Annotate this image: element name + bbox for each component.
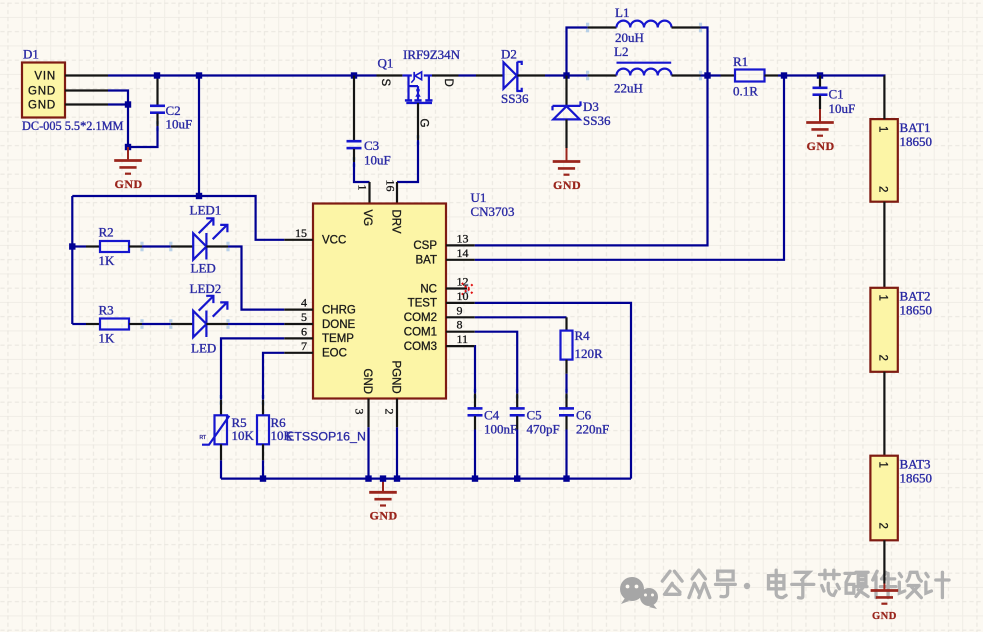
- pin U1.1: [368, 182, 370, 204]
- svg-text:9: 9: [457, 303, 463, 317]
- svg-text:GND: GND: [115, 177, 143, 191]
- svg-text:U1: U1: [471, 190, 487, 205]
- svg-text:R3: R3: [99, 303, 114, 318]
- junction C5 rail: [514, 475, 520, 481]
- wire LED top rail: [72, 196, 284, 240]
- junction R2: [69, 243, 75, 249]
- wire LED supply vertical: [198, 76, 200, 197]
- pin U1.6 TEMP: [284, 337, 313, 339]
- wire D1 gnd to vertical: [108, 91, 158, 148]
- pin Q1 gate: [417, 103, 419, 140]
- svg-text:SS36: SS36: [501, 91, 529, 106]
- IC U1 CN3703 body: [313, 204, 446, 399]
- junction C4 rail: [472, 475, 478, 481]
- pin U1.13 CSP: [446, 244, 475, 246]
- svg-text:2: 2: [877, 523, 889, 529]
- junction R6 rail: [260, 475, 266, 481]
- svg-text:470pF: 470pF: [527, 422, 560, 437]
- inductor L2: [617, 63, 721, 76]
- svg-text:8: 8: [457, 318, 463, 332]
- svg-text:120R: 120R: [575, 346, 604, 361]
- capacitor C1: [813, 76, 828, 110]
- junction C1: [817, 72, 823, 78]
- svg-text:220nF: 220nF: [576, 422, 609, 437]
- svg-text:R1: R1: [733, 54, 748, 69]
- ground GND D3: [553, 148, 581, 175]
- svg-text:1K: 1K: [99, 331, 116, 346]
- pin D1.1 VIN: [65, 74, 108, 76]
- svg-text:10K: 10K: [232, 428, 255, 443]
- svg-text:3: 3: [353, 409, 367, 415]
- pin U1.15 VCC: [284, 239, 313, 241]
- junction pin2 rail: [394, 475, 400, 481]
- svg-text:GND: GND: [370, 509, 398, 523]
- wire R2 left: [72, 245, 86, 247]
- pin U1.3 GND: [367, 399, 369, 428]
- no-connect X on pin 12: [462, 283, 474, 295]
- svg-text:20uH: 20uH: [615, 30, 644, 45]
- svg-text:7: 7: [301, 339, 307, 353]
- wire LED2 to DONE: [228, 323, 284, 325]
- svg-text:13: 13: [457, 231, 469, 245]
- svg-text:DRV: DRV: [390, 210, 402, 234]
- svg-text:Q1: Q1: [378, 56, 394, 71]
- pin U1.12 NC: [446, 287, 467, 289]
- pin U1.8 COM1: [446, 331, 475, 333]
- wire CSP sense: [475, 76, 708, 246]
- svg-text:18650: 18650: [900, 471, 933, 486]
- wire gate to pin16: [397, 140, 418, 182]
- pin Q1 drain: [432, 74, 459, 76]
- connector D1: [22, 63, 65, 118]
- wire COM2 to R4: [475, 316, 567, 318]
- svg-text:GND: GND: [28, 100, 56, 112]
- wire BAT1 to BAT2: [883, 202, 885, 288]
- diode D3 SS36: [553, 76, 581, 149]
- svg-text:CHRG: CHRG: [322, 304, 356, 316]
- svg-text:5: 5: [301, 310, 307, 324]
- resistor R4: [561, 317, 573, 374]
- wire Q1 drain to D2: [459, 74, 477, 76]
- svg-text:LED2: LED2: [190, 281, 222, 296]
- capacitor C2: [150, 76, 165, 127]
- wire pin3 to rail: [367, 427, 369, 478]
- svg-text:DC-005 5.5*2.1MM: DC-005 5.5*2.1MM: [22, 119, 124, 133]
- ground GND C1: [806, 109, 834, 136]
- pin U1.2 PGND: [396, 399, 398, 428]
- svg-text:IRF9Z34N: IRF9Z34N: [403, 47, 461, 62]
- wire EOC to R6: [263, 353, 284, 400]
- wire TEST to rail: [475, 303, 631, 479]
- svg-text:TEST: TEST: [408, 298, 437, 310]
- svg-text:2: 2: [383, 409, 397, 415]
- wire C6 to rail: [565, 430, 567, 479]
- svg-text:2: 2: [877, 355, 889, 361]
- svg-text:ETSSOP16_N: ETSSOP16_N: [286, 430, 366, 444]
- svg-text:C1: C1: [829, 87, 844, 102]
- svg-text:PGND: PGND: [390, 361, 402, 394]
- svg-text:COM1: COM1: [404, 327, 437, 339]
- svg-text:SS36: SS36: [583, 113, 611, 128]
- wire left vertical R2-R3: [71, 196, 73, 324]
- junction LED rail: [196, 193, 202, 199]
- wire LED1 to CHRG: [228, 247, 284, 310]
- svg-text:BAT: BAT: [415, 255, 437, 267]
- watermark text 公众号·电子芯硬件设计: [662, 570, 949, 598]
- capacitor C6: [559, 394, 574, 430]
- svg-text:1K: 1K: [99, 253, 116, 268]
- svg-text:11: 11: [457, 332, 469, 346]
- wire R5 to rail: [220, 460, 222, 478]
- battery BAT2: [870, 288, 897, 372]
- wire pin2 to rail: [396, 427, 398, 478]
- wire R1 to BAT1: [778, 76, 884, 77]
- svg-text:1: 1: [877, 295, 889, 301]
- svg-text:D: D: [442, 79, 454, 87]
- svg-text:10: 10: [457, 289, 469, 303]
- svg-text:15: 15: [295, 226, 307, 240]
- svg-text:R2: R2: [99, 225, 114, 240]
- wire C3 to pin1: [354, 162, 370, 182]
- pin U1.9 COM2: [446, 316, 475, 318]
- junction C2 top: [154, 72, 160, 78]
- junction C3: [351, 72, 357, 78]
- svg-text:G: G: [418, 119, 430, 128]
- pin D1.2 GND: [65, 89, 108, 91]
- svg-text:CN3703: CN3703: [471, 204, 515, 219]
- junction C6 rail: [563, 475, 569, 481]
- wire BAT sense vertical: [475, 76, 784, 260]
- svg-text:L2: L2: [614, 44, 628, 59]
- junction D1 gnd: [125, 101, 131, 107]
- wire R3 to LED2: [142, 323, 171, 325]
- svg-text:1: 1: [356, 185, 370, 191]
- svg-text:R4: R4: [575, 328, 591, 343]
- wire R2 to LED1: [142, 245, 171, 247]
- svg-text:CSP: CSP: [413, 240, 437, 252]
- svg-text:GND: GND: [872, 611, 897, 622]
- svg-text:14: 14: [457, 246, 469, 260]
- svg-text:4: 4: [301, 296, 307, 310]
- svg-text:1: 1: [877, 126, 889, 132]
- resistor R3: [86, 319, 142, 330]
- pin D1.3 GND: [65, 103, 108, 105]
- diode D2 SS36: [476, 62, 545, 91]
- watermark wechat logo: [620, 577, 658, 609]
- wire C5 to rail: [516, 430, 518, 479]
- resistor R1: [721, 70, 779, 82]
- ground GND BAT3: [871, 584, 899, 604]
- svg-text:1: 1: [877, 462, 889, 468]
- wire TEMP to R5: [221, 338, 284, 399]
- thermistor R5: [202, 400, 229, 461]
- wire hotspot markers: [140, 23, 702, 405]
- svg-text:NC: NC: [420, 283, 437, 295]
- junction gnd rail: [380, 475, 386, 481]
- svg-text:C3: C3: [364, 138, 379, 153]
- svg-text:GND: GND: [807, 139, 835, 153]
- wire D2 to node: [545, 74, 588, 76]
- wire COM1 to C5: [475, 332, 517, 394]
- wire VIN rail: [108, 74, 377, 76]
- junction L1-L2-R1: [704, 72, 710, 78]
- svg-text:GND: GND: [28, 86, 56, 98]
- ground GND bottom rail: [369, 479, 397, 506]
- pin U1.5 DONE: [284, 323, 313, 325]
- svg-text:DONE: DONE: [322, 319, 356, 331]
- pin U1.14 BAT: [446, 259, 475, 261]
- svg-text:RT: RT: [200, 435, 207, 441]
- junction BAT sense: [781, 72, 787, 78]
- svg-text:L1: L1: [615, 5, 629, 20]
- battery BAT3: [870, 456, 897, 541]
- svg-text:10uF: 10uF: [166, 117, 193, 132]
- wire COM3 to C4: [474, 346, 476, 394]
- junction gnd-c2: [125, 144, 131, 150]
- capacitor C5: [510, 394, 525, 430]
- svg-text:18650: 18650: [900, 134, 933, 149]
- svg-text:0.1R: 0.1R: [733, 84, 758, 99]
- wire BAT2 to BAT3: [883, 372, 885, 456]
- svg-text:D2: D2: [501, 47, 517, 62]
- LED LED2: [171, 296, 228, 337]
- svg-text:C5: C5: [527, 408, 542, 423]
- svg-text:D3: D3: [583, 99, 599, 114]
- wire R6 to rail: [262, 460, 264, 478]
- wire R4 to C6: [565, 374, 567, 394]
- svg-text:22uH: 22uH: [614, 81, 643, 96]
- svg-text:18650: 18650: [900, 303, 933, 318]
- wire D1 gnd pin3: [108, 103, 128, 105]
- svg-text:VIN: VIN: [34, 71, 56, 83]
- capacitor C3: [347, 76, 362, 163]
- svg-text:10K: 10K: [271, 428, 294, 443]
- svg-text:LED1: LED1: [190, 203, 222, 218]
- svg-text:100nF: 100nF: [484, 422, 517, 437]
- svg-text:BAT1: BAT1: [900, 120, 931, 135]
- svg-text:COM2: COM2: [404, 312, 437, 324]
- wire bottom ground rail: [221, 478, 631, 480]
- svg-text:GND: GND: [361, 369, 373, 395]
- resistor R2: [86, 241, 142, 252]
- pin BAT1.1: [883, 76, 885, 120]
- capacitor C4: [468, 394, 483, 430]
- pin U1.4 CHRG: [284, 309, 313, 311]
- junction pin3 rail: [365, 475, 371, 481]
- svg-text:VCC: VCC: [322, 235, 346, 247]
- wire BAT3 to ground: [883, 540, 885, 583]
- svg-text:16: 16: [384, 180, 398, 192]
- junction LED branch: [196, 72, 202, 78]
- svg-text:S: S: [379, 79, 391, 87]
- svg-text:BAT3: BAT3: [900, 457, 931, 472]
- LED LED1: [171, 218, 228, 259]
- svg-text:EOC: EOC: [322, 348, 347, 360]
- svg-text:LED: LED: [191, 261, 216, 276]
- svg-text:COM3: COM3: [404, 341, 437, 353]
- svg-text:C6: C6: [576, 408, 592, 423]
- svg-text:BAT2: BAT2: [900, 289, 931, 304]
- svg-text:2: 2: [877, 186, 889, 192]
- pin U1.11 COM3: [446, 345, 475, 347]
- pin Q1 source: [377, 74, 403, 76]
- svg-text:GND: GND: [553, 178, 581, 192]
- svg-text:LED: LED: [191, 341, 216, 356]
- pin U1.7 EOC: [284, 352, 313, 354]
- svg-text:10uF: 10uF: [364, 153, 391, 168]
- svg-text:VG: VG: [361, 210, 373, 227]
- resistor R6: [257, 400, 269, 461]
- svg-text:6: 6: [301, 324, 307, 338]
- junction D3 node: [563, 72, 569, 78]
- wire C4 to rail: [474, 430, 476, 479]
- svg-text:TEMP: TEMP: [322, 333, 354, 345]
- svg-text:C4: C4: [484, 408, 500, 423]
- svg-text:10uF: 10uF: [829, 101, 856, 116]
- svg-text:D1: D1: [23, 47, 39, 62]
- transistor Q1 IRF9Z34N: [402, 72, 432, 103]
- ground GND input: [114, 147, 142, 174]
- battery BAT1: [870, 119, 897, 202]
- pin U1.10 TEST: [446, 302, 475, 304]
- inductor L1: [567, 21, 708, 76]
- pin U1.16: [396, 182, 398, 204]
- wire R3 left: [72, 323, 86, 325]
